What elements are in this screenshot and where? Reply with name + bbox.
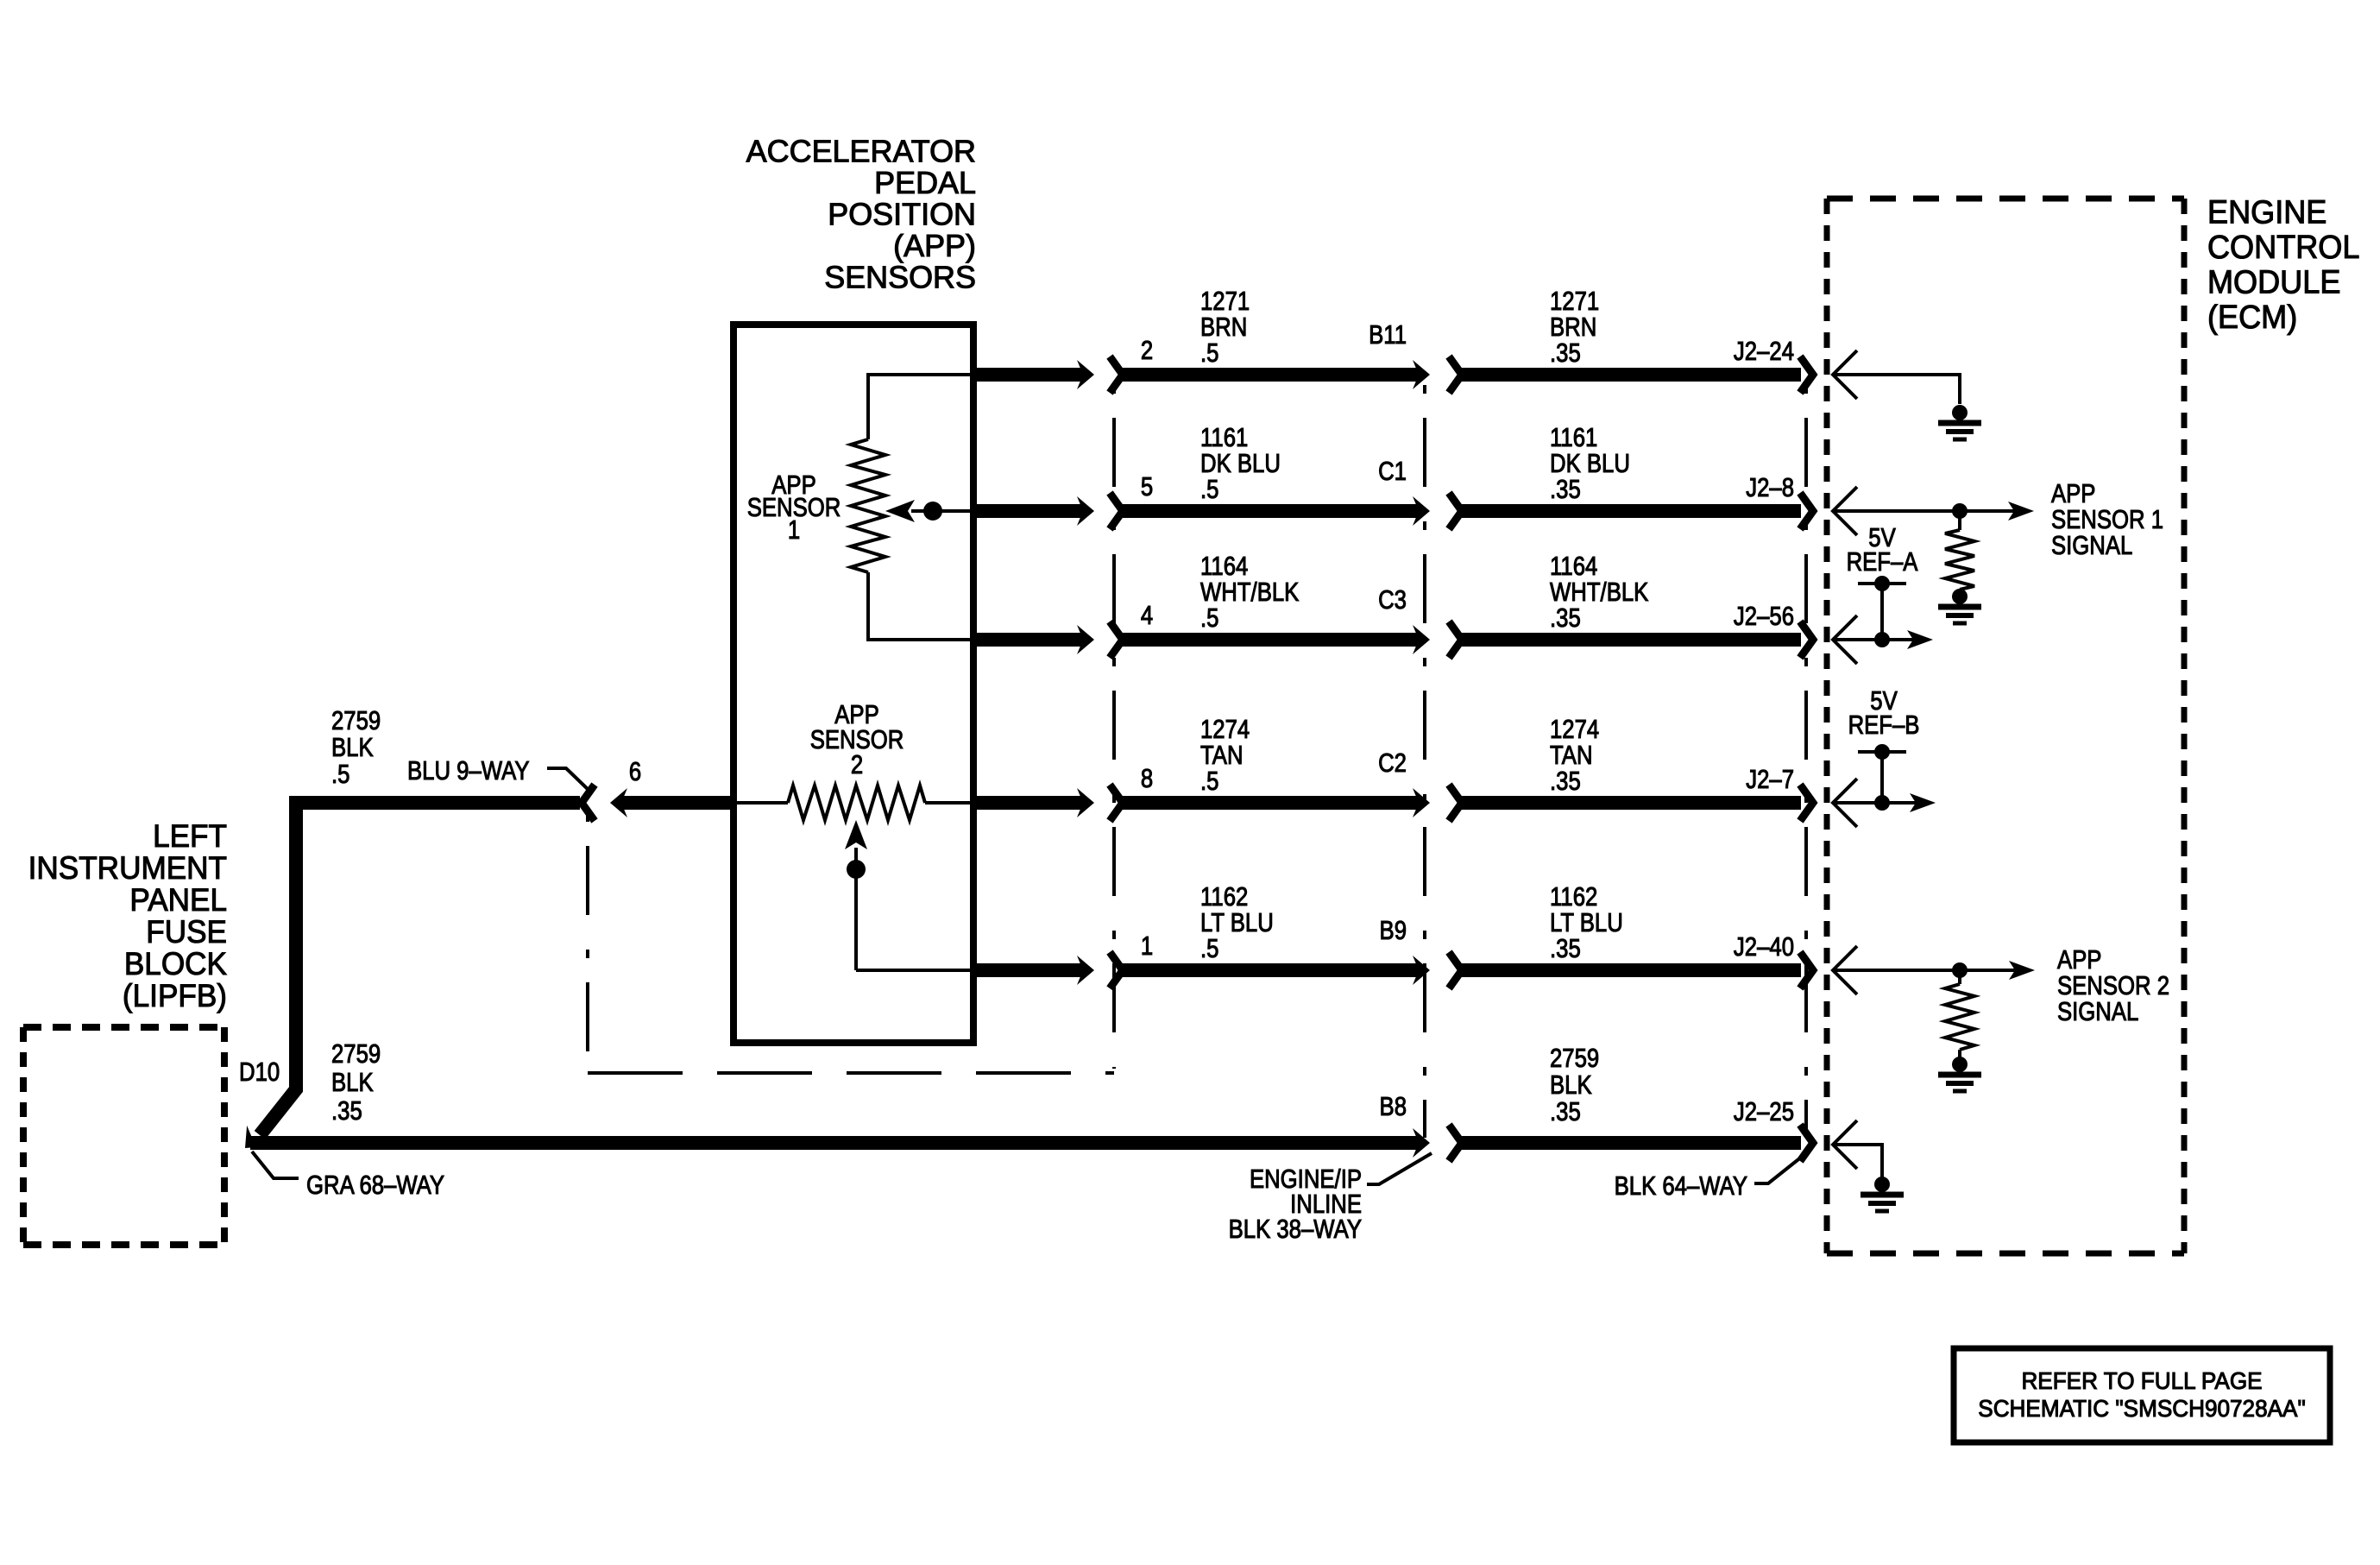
- svg-text:2759: 2759: [331, 1039, 381, 1070]
- svg-text:ACCELERATOR: ACCELERATOR: [746, 133, 976, 168]
- svg-text:PANEL: PANEL: [129, 881, 227, 918]
- svg-text:2759: 2759: [331, 706, 381, 736]
- svg-text:BLK: BLK: [331, 1068, 374, 1098]
- svg-text:SIGNAL: SIGNAL: [2051, 531, 2132, 561]
- svg-text:.35: .35: [1550, 767, 1581, 797]
- svg-text:.35: .35: [1550, 338, 1581, 369]
- svg-text:8: 8: [1141, 764, 1153, 794]
- svg-text:(ECM): (ECM): [2207, 298, 2297, 335]
- svg-text:SENSORS: SENSORS: [824, 259, 976, 294]
- svg-text:J2–40: J2–40: [1734, 932, 1794, 962]
- svg-text:B11: B11: [1369, 320, 1407, 350]
- svg-text:BLK: BLK: [1550, 1070, 1592, 1101]
- svg-text:GRA 68–WAY: GRA 68–WAY: [306, 1171, 444, 1201]
- svg-text:C1: C1: [1378, 457, 1407, 487]
- svg-text:D10: D10: [239, 1057, 280, 1088]
- svg-text:.5: .5: [1200, 767, 1218, 797]
- svg-text:J2–7: J2–7: [1746, 765, 1794, 795]
- svg-text:4: 4: [1141, 601, 1153, 631]
- svg-text:2: 2: [1141, 336, 1153, 366]
- svg-text:(APP): (APP): [893, 228, 976, 263]
- svg-text:2: 2: [851, 750, 863, 780]
- svg-text:5: 5: [1141, 472, 1153, 502]
- svg-text:ENGINE: ENGINE: [2207, 192, 2326, 230]
- svg-text:BLOCK: BLOCK: [124, 945, 227, 981]
- svg-text:J2–8: J2–8: [1746, 473, 1794, 503]
- svg-text:.35: .35: [1550, 475, 1581, 505]
- svg-text:6: 6: [629, 757, 641, 787]
- svg-text:.35: .35: [1550, 603, 1581, 634]
- svg-text:J2–56: J2–56: [1734, 602, 1794, 632]
- svg-text:.5: .5: [1200, 475, 1218, 505]
- svg-text:POSITION: POSITION: [828, 196, 976, 231]
- svg-text:2759: 2759: [1550, 1044, 1599, 1074]
- svg-text:.5: .5: [1200, 934, 1218, 964]
- svg-text:.5: .5: [331, 760, 349, 790]
- svg-text:C2: C2: [1378, 748, 1407, 779]
- svg-text:INSTRUMENT: INSTRUMENT: [28, 849, 227, 886]
- svg-text:(LIPFB): (LIPFB): [123, 977, 227, 1013]
- svg-text:1: 1: [1141, 931, 1153, 962]
- svg-text:B9: B9: [1380, 916, 1407, 946]
- svg-text:LEFT: LEFT: [153, 817, 227, 854]
- svg-text:.35: .35: [1550, 1097, 1581, 1127]
- svg-text:FUSE: FUSE: [146, 913, 227, 950]
- svg-text:.5: .5: [1200, 338, 1218, 369]
- svg-text:CONTROL: CONTROL: [2207, 228, 2359, 265]
- svg-text:MODULE: MODULE: [2207, 262, 2340, 300]
- svg-text:SIGNAL: SIGNAL: [2057, 997, 2138, 1027]
- svg-text:B8: B8: [1380, 1092, 1407, 1122]
- svg-text:SCHEMATIC "SMSCH90728AA": SCHEMATIC "SMSCH90728AA": [1978, 1396, 2305, 1423]
- svg-text:J2–24: J2–24: [1734, 337, 1794, 367]
- svg-text:1: 1: [788, 515, 800, 546]
- svg-text:PEDAL: PEDAL: [874, 165, 976, 200]
- svg-text:.35: .35: [331, 1096, 362, 1126]
- svg-text:REF–A: REF–A: [1847, 547, 1918, 577]
- svg-text:BLK 64–WAY: BLK 64–WAY: [1615, 1171, 1747, 1202]
- svg-text:J2–25: J2–25: [1734, 1097, 1794, 1127]
- svg-text:.35: .35: [1550, 934, 1581, 964]
- svg-text:BLK 38–WAY: BLK 38–WAY: [1229, 1215, 1362, 1245]
- svg-text:REF–B: REF–B: [1848, 710, 1920, 741]
- svg-text:REFER TO FULL PAGE: REFER TO FULL PAGE: [2021, 1368, 2262, 1395]
- svg-text:BLU 9–WAY: BLU 9–WAY: [407, 756, 529, 786]
- svg-text:C3: C3: [1378, 585, 1407, 615]
- svg-text:.5: .5: [1200, 603, 1218, 634]
- svg-text:BLK: BLK: [331, 733, 374, 763]
